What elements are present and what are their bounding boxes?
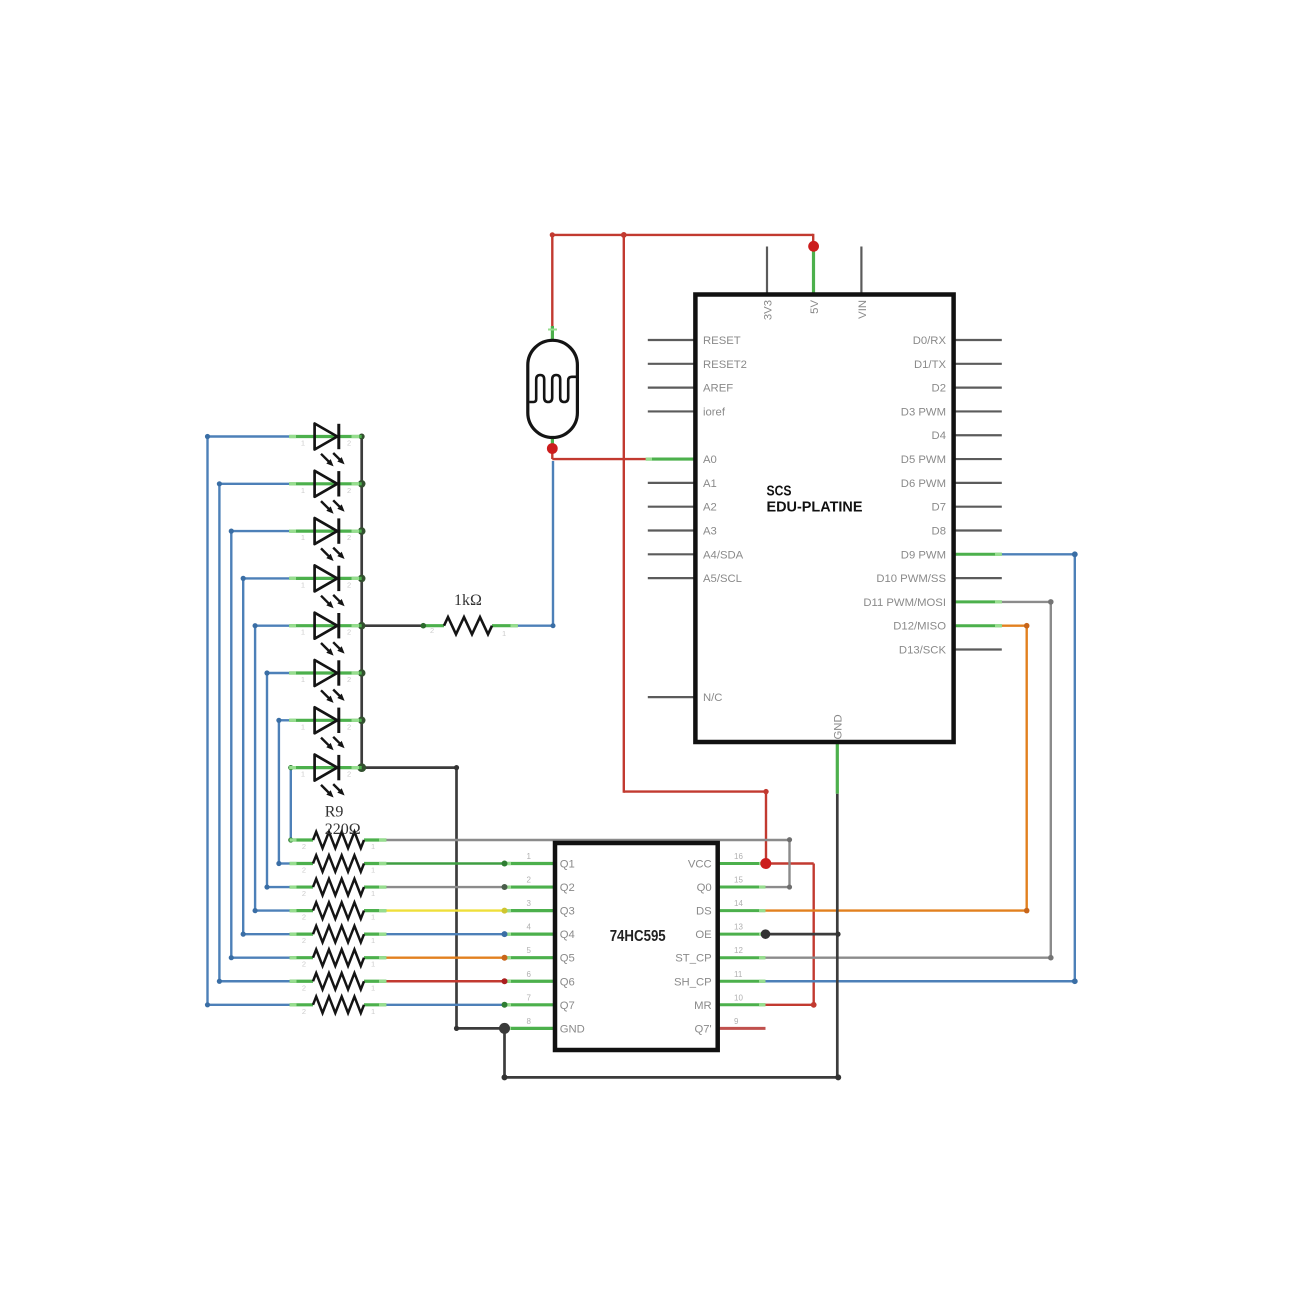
svg-text:3V3: 3V3: [763, 300, 775, 320]
svg-text:D2: D2: [932, 383, 946, 395]
svg-text:D1/TX: D1/TX: [914, 359, 946, 371]
svg-text:5: 5: [527, 946, 532, 955]
svg-text:Q7: Q7: [560, 1000, 575, 1012]
svg-text:A4/SDA: A4/SDA: [703, 549, 744, 561]
svg-text:D13/SCK: D13/SCK: [899, 645, 947, 657]
svg-text:VIN: VIN: [857, 300, 869, 319]
svg-text:1: 1: [371, 889, 375, 898]
svg-text:16: 16: [734, 852, 743, 861]
svg-text:13: 13: [734, 923, 743, 932]
svg-text:Q1: Q1: [560, 859, 575, 871]
svg-text:1: 1: [527, 852, 532, 861]
svg-text:1: 1: [301, 675, 305, 684]
svg-text:2: 2: [347, 439, 351, 448]
svg-text:MR: MR: [694, 1000, 712, 1012]
svg-text:1: 1: [301, 628, 305, 637]
svg-text:D4: D4: [932, 430, 946, 442]
svg-text:A0: A0: [703, 454, 717, 466]
svg-text:2: 2: [302, 913, 306, 922]
svg-text:A2: A2: [703, 502, 717, 514]
svg-text:ST_CP: ST_CP: [675, 953, 711, 965]
svg-text:2: 2: [302, 960, 306, 969]
svg-text:1: 1: [301, 770, 305, 779]
svg-text:1: 1: [371, 842, 375, 851]
svg-text:VCC: VCC: [688, 859, 712, 871]
svg-text:8: 8: [527, 1017, 532, 1026]
svg-text:GND: GND: [833, 714, 845, 739]
svg-text:1: 1: [371, 983, 375, 992]
svg-text:12: 12: [734, 946, 743, 955]
svg-text:R9: R9: [325, 804, 344, 821]
svg-text:6: 6: [527, 970, 532, 979]
svg-text:D9 PWM: D9 PWM: [901, 549, 946, 561]
svg-text:Q6: Q6: [560, 976, 575, 988]
svg-text:1: 1: [301, 486, 305, 495]
svg-text:1: 1: [371, 913, 375, 922]
svg-text:2: 2: [302, 842, 306, 851]
svg-text:Q2: Q2: [560, 882, 575, 894]
svg-text:Q5: Q5: [560, 953, 575, 965]
svg-text:D7: D7: [932, 502, 946, 514]
svg-text:D11 PWM/MOSI: D11 PWM/MOSI: [863, 597, 946, 609]
svg-text:1: 1: [371, 1007, 375, 1016]
svg-text:2: 2: [302, 1007, 306, 1016]
svg-text:2: 2: [302, 866, 306, 875]
svg-text:1: 1: [301, 580, 305, 589]
svg-text:EDU-PLATINE: EDU-PLATINE: [767, 500, 863, 516]
svg-text:15: 15: [734, 876, 743, 885]
svg-text:1kΩ: 1kΩ: [454, 592, 482, 609]
svg-text:ioref: ioref: [703, 406, 726, 418]
svg-text:2: 2: [347, 770, 351, 779]
svg-text:Q4: Q4: [560, 929, 575, 941]
svg-text:D6 PWM: D6 PWM: [901, 478, 946, 490]
svg-text:1: 1: [301, 533, 305, 542]
svg-text:74HC595: 74HC595: [610, 928, 666, 945]
svg-text:RESET2: RESET2: [703, 359, 747, 371]
svg-text:D8: D8: [932, 525, 946, 537]
svg-text:7: 7: [527, 993, 532, 1002]
svg-text:3: 3: [527, 899, 532, 908]
svg-text:GND: GND: [560, 1023, 585, 1035]
svg-text:1: 1: [301, 439, 305, 448]
svg-text:RESET: RESET: [703, 335, 741, 347]
svg-text:2: 2: [302, 983, 306, 992]
svg-text:D12/MISO: D12/MISO: [893, 621, 946, 633]
svg-text:D10 PWM/SS: D10 PWM/SS: [876, 573, 946, 585]
svg-text:SCS: SCS: [767, 484, 792, 500]
svg-text:1: 1: [502, 629, 506, 638]
svg-text:A5/SCL: A5/SCL: [703, 573, 742, 585]
svg-text:9: 9: [734, 1017, 739, 1026]
svg-text:14: 14: [734, 899, 743, 908]
svg-text:N/C: N/C: [703, 692, 722, 704]
svg-text:2: 2: [302, 889, 306, 898]
svg-text:Q7': Q7': [694, 1023, 711, 1035]
svg-text:AREF: AREF: [703, 383, 733, 395]
svg-text:2: 2: [347, 675, 351, 684]
svg-text:2: 2: [347, 628, 351, 637]
svg-text:2: 2: [527, 876, 532, 885]
svg-text:Q0: Q0: [697, 882, 712, 894]
svg-text:2: 2: [347, 533, 351, 542]
svg-text:D5 PWM: D5 PWM: [901, 454, 946, 466]
svg-text:2: 2: [430, 626, 434, 635]
svg-text:2: 2: [347, 580, 351, 589]
svg-text:Q3: Q3: [560, 906, 575, 918]
svg-text:2: 2: [302, 936, 306, 945]
svg-text:A3: A3: [703, 525, 717, 537]
svg-text:A1: A1: [703, 478, 717, 490]
svg-text:1: 1: [371, 960, 375, 969]
svg-text:2: 2: [347, 486, 351, 495]
svg-text:2: 2: [347, 722, 351, 731]
svg-text:1: 1: [301, 722, 305, 731]
svg-text:SH_CP: SH_CP: [674, 976, 712, 988]
svg-text:D3 PWM: D3 PWM: [901, 406, 946, 418]
svg-text:1: 1: [371, 866, 375, 875]
svg-text:220Ω: 220Ω: [325, 821, 361, 838]
svg-text:OE: OE: [695, 929, 712, 941]
svg-text:10: 10: [734, 993, 743, 1002]
svg-text:D0/RX: D0/RX: [913, 335, 947, 347]
svg-text:11: 11: [734, 970, 743, 979]
svg-text:5V: 5V: [809, 300, 821, 314]
svg-text:4: 4: [527, 923, 532, 932]
svg-text:DS: DS: [696, 906, 712, 918]
svg-text:1: 1: [371, 936, 375, 945]
